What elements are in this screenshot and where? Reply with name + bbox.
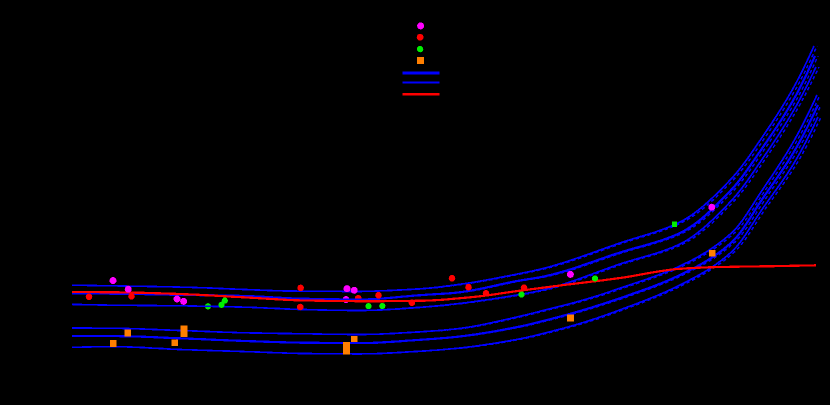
red point at (452,278) [449,275,456,282]
blue curve 2 solid [72,56,815,300]
blue curve 1 (top) solid [72,46,814,291]
green point at (225,301) [222,298,228,304]
legend green point [417,46,423,52]
red point at (300,307) [297,304,304,311]
blue curve 6 (bottom) dashed companion [75,117,821,354]
blue curve 4 dashed companion [75,95,820,335]
legend blue thin line [402,82,439,84]
magenta point at (354,290) [351,287,358,294]
magenta point at (347,289) [344,285,351,292]
blue curve 2 dashed companion [75,56,818,300]
red point at (89,297) [86,294,93,301]
legend red line [402,93,439,95]
red point behind lines at (358,298) [355,295,362,302]
green point at (222,305) [218,302,224,308]
green square point at (674,224) [672,222,677,227]
magenta point at (712,207) [708,204,715,211]
orange square at (570,318) [567,315,574,322]
red point at (378,295) [375,292,382,299]
green point behind line at (208,306) [205,303,211,309]
legend red point [417,34,424,41]
green point behind red curve at (522,294) [518,291,524,297]
legend magenta point [417,22,424,29]
green point at (382,306) [379,303,385,309]
red point at (301,288) [297,285,304,292]
orange square at (346,351) [343,348,350,355]
orange square at (346,345) [343,342,350,349]
blue curve 4 solid [72,95,817,335]
magenta point at (128,289) [125,286,132,293]
green point at (595,278) [592,275,598,281]
magenta point behind lines at (346,300) [343,296,350,303]
red point at (132,296) [128,293,135,300]
magenta point at (570,274) [567,271,574,278]
green point at (368,306) [365,303,371,309]
red curve [72,265,816,301]
legend orange square [417,57,424,64]
orange square behind line at (354,340) [351,336,358,343]
orange square at (184,329) [181,325,188,332]
orange square at (113,344) [110,340,117,347]
magenta point at (184,301) [180,298,187,305]
magenta point at (113,281) [110,277,117,284]
orange square at (712,253) [709,250,716,257]
red point at (468,287) [465,284,472,291]
red point at (486,293) [483,290,490,297]
blue curve 5 dashed companion [75,105,821,343]
magenta point at (177,299) [174,295,181,302]
blue curve 6 (bottom) solid [72,117,818,354]
red point at (524,288) [521,284,528,291]
blue curve 3 solid [72,67,816,311]
red point at (412,303) [409,299,416,306]
blue curve 1 (top) dashed companion [75,46,817,291]
orange square at (128,333) [124,330,131,337]
orange square at (175,343) [171,339,178,346]
blue curve 3 dashed companion [75,67,819,311]
orange square at (184,333) [181,330,188,337]
blue curve 5 solid [72,105,818,343]
legend blue thick line [402,72,439,75]
